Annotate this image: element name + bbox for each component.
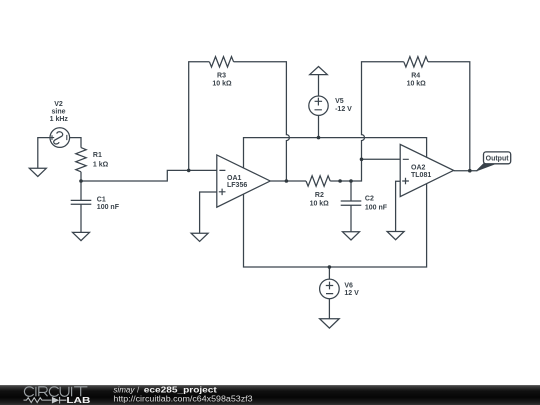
wire OA1 output to R2 <box>270 180 306 182</box>
svg-text:R1: R1 <box>93 152 102 159</box>
wire negative supply rail (OA1 V- pin to OA2 V- pin) <box>244 184 427 267</box>
ground G4 at C2 <box>343 232 360 240</box>
svg-text:10 kΩ: 10 kΩ <box>310 201 330 208</box>
resistor R1 <box>76 148 86 172</box>
svg-text:R2: R2 <box>315 192 324 199</box>
voltage source V5 <box>309 75 328 138</box>
wire node A to C1 <box>80 181 82 200</box>
capacitor C2 <box>341 181 362 232</box>
ground G6 at V6 <box>320 319 340 328</box>
footer project title <box>113 385 253 403</box>
voltage source V6 <box>320 267 340 319</box>
svg-text:LAB: LAB <box>66 396 91 405</box>
wire V2 left lead to ground <box>38 138 50 169</box>
svg-text:TL081: TL081 <box>411 172 431 179</box>
svg-text:LF356: LF356 <box>227 182 247 189</box>
junction node C at OA2 inverting input <box>360 158 364 162</box>
resistor R2 <box>306 176 330 186</box>
svg-text:C1: C1 <box>97 197 106 204</box>
wire V2 right lead to R1 <box>70 138 81 148</box>
svg-text:sine: sine <box>51 109 65 116</box>
svg-text:V5: V5 <box>335 98 344 105</box>
footer bar <box>0 385 540 405</box>
junction OA2 output / R4 <box>468 169 472 173</box>
svg-text:OA1: OA1 <box>227 175 242 182</box>
op-amp OA1 <box>217 155 270 207</box>
ground G2 at C1 <box>73 232 90 240</box>
wire R2 to node C up to OA2 inverting input <box>330 159 361 181</box>
svg-text:10 kΩ: 10 kΩ <box>212 81 232 88</box>
resistor R3 <box>209 57 233 67</box>
svg-text:R3: R3 <box>217 72 226 79</box>
svg-text:Output: Output <box>486 155 510 162</box>
svg-text:1 kΩ: 1 kΩ <box>93 162 109 169</box>
wire OA2 noninverting input to ground <box>396 181 401 231</box>
wire R4 right leg to OA2 output <box>428 62 470 171</box>
svg-text:12 V: 12 V <box>344 290 359 297</box>
CircuitLab logo CIRCUIT outline letters <box>24 387 87 397</box>
op-amp OA2 <box>400 144 453 196</box>
wire node C to OA2 inverting input <box>362 158 401 160</box>
capacitor C1 <box>71 200 92 232</box>
junction node A (R1/C1) <box>79 179 83 183</box>
junction at R2 output <box>338 179 342 183</box>
svg-text:100 nF: 100 nF <box>365 204 388 211</box>
junction OA1 output / R3 <box>285 179 289 183</box>
svg-text:1 kHz: 1 kHz <box>50 116 69 123</box>
CircuitLab logo resistor and diode glyph <box>24 397 67 404</box>
output flag pointer <box>477 164 496 171</box>
junction OA1 inverting input / R3 <box>187 169 191 173</box>
ground G3 at OA1 noninverting input <box>191 233 208 241</box>
resistor R4 <box>404 57 428 67</box>
junction V5 on supply rail <box>317 136 321 140</box>
wire R3 right leg with hop over supply rail <box>234 62 290 181</box>
wire positive supply rail (OA1 V+ pin to OA2 V+ pin) <box>244 138 427 169</box>
svg-text:http://circuitlab.com/c64x598a: http://circuitlab.com/c64x598a53zf3 <box>113 394 253 403</box>
wire R4 left leg with hop over supply rail <box>362 62 404 160</box>
junction V6 on negative rail <box>328 265 332 269</box>
svg-text:simay: simay <box>113 385 135 394</box>
ground G5 at OA2 noninverting input <box>387 232 404 240</box>
wire OA2 output to flag <box>454 170 478 172</box>
svg-text:ece285_project: ece285_project <box>144 385 217 394</box>
supply arrow above V5 <box>310 67 328 75</box>
junction at C2 tap <box>349 179 353 183</box>
svg-text:C2: C2 <box>365 196 374 203</box>
svg-text:10 kΩ: 10 kΩ <box>407 81 427 88</box>
svg-text:100 nF: 100 nF <box>97 204 120 211</box>
svg-text:V2: V2 <box>54 101 63 108</box>
wire R3 left leg <box>189 62 210 171</box>
ground G1 at V2 <box>29 168 46 176</box>
wire OA1 noninverting input to ground <box>200 192 217 233</box>
svg-text:R4: R4 <box>411 72 420 79</box>
output flag box <box>484 152 511 164</box>
wire R1 bottom lead <box>80 172 82 181</box>
svg-text:OA2: OA2 <box>411 164 426 171</box>
svg-text:-12 V: -12 V <box>335 106 352 113</box>
svg-text:V6: V6 <box>344 282 353 289</box>
wire node A to OA1 inverting input <box>81 170 217 181</box>
voltage source V2 <box>50 128 70 148</box>
